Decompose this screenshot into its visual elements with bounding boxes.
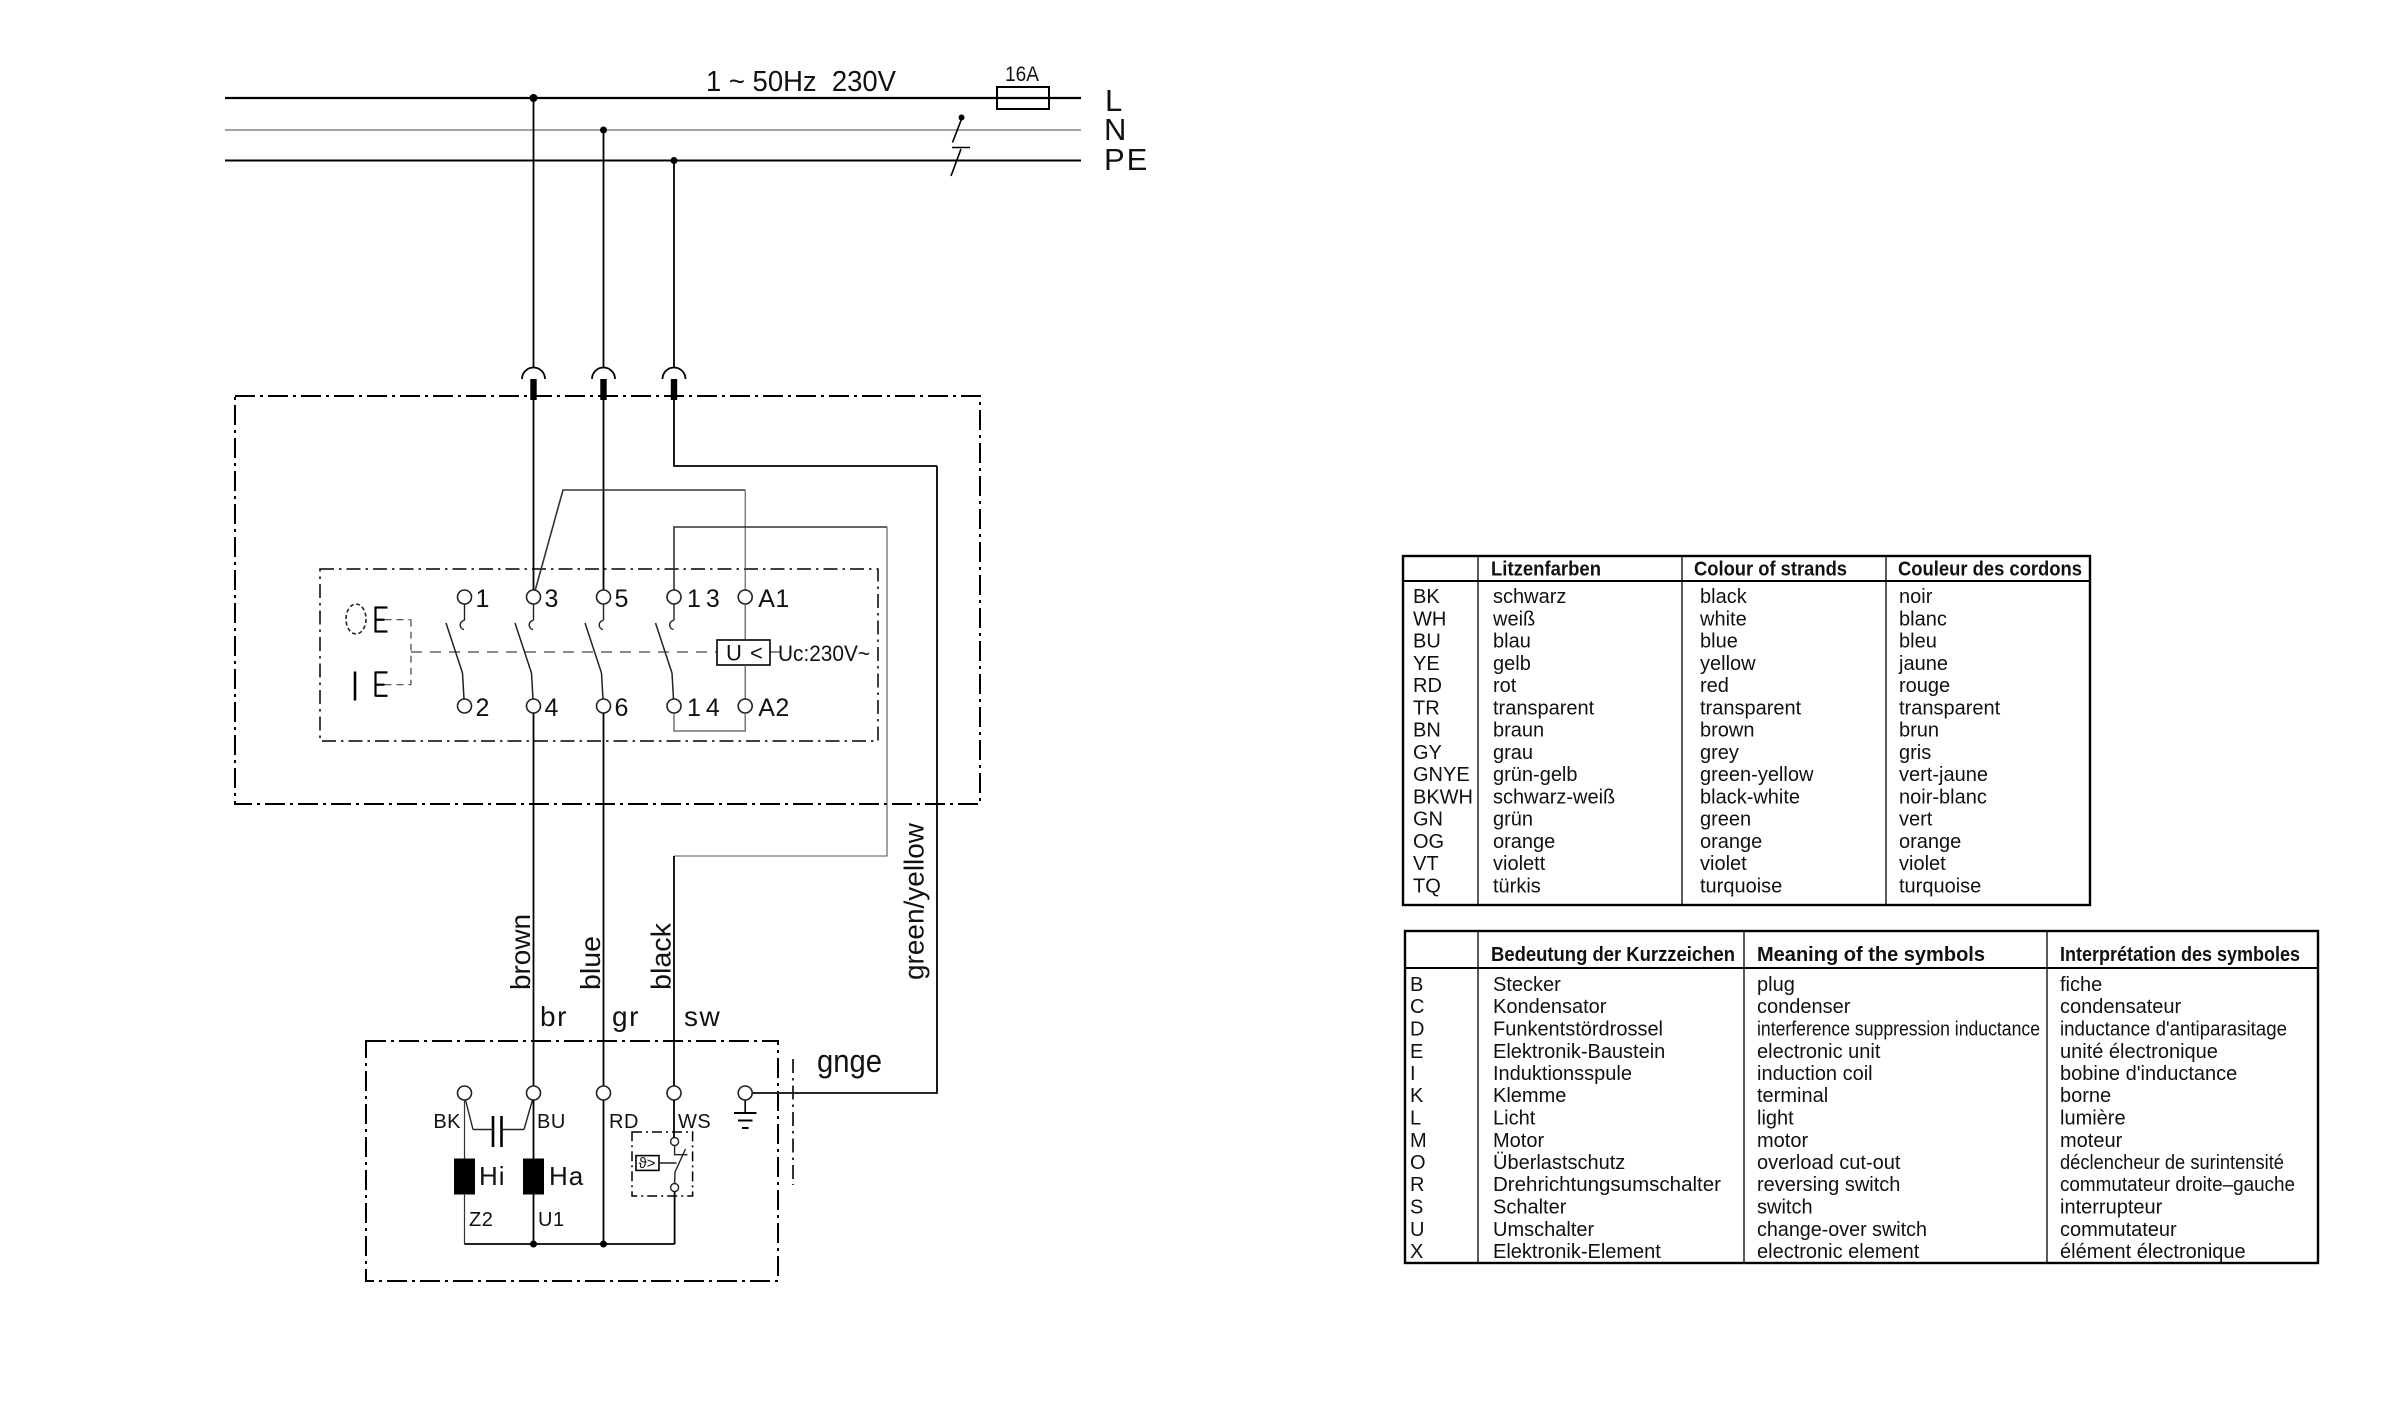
svg-text:green: green: [1700, 809, 1751, 831]
svg-text:gris: gris: [1899, 742, 1931, 764]
value label 16A: [1005, 63, 1039, 86]
svg-text:déclencheur de surintensité: déclencheur de surintensité: [2060, 1152, 2284, 1174]
wire coil Hi to bus: [464, 1194, 466, 1244]
svg-text:lumière: lumière: [2060, 1108, 2126, 1130]
svg-text:violet: violet: [1899, 853, 1946, 875]
junction bus/BU: [530, 1241, 537, 1248]
svg-text:electronic unit: electronic unit: [1757, 1041, 1881, 1063]
line-break mark on N: [953, 115, 965, 143]
svg-text:schwarz-weiß: schwarz-weiß: [1493, 786, 1615, 808]
svg-text:black: black: [1700, 586, 1748, 608]
svg-text:GY: GY: [1413, 742, 1442, 764]
enclosure: plug-in switch unit (dash-dot box): [235, 396, 980, 804]
svg-text:Überlastschutz: Überlastschutz: [1493, 1152, 1625, 1174]
pushbutton O (off): [346, 604, 388, 634]
svg-text:plug: plug: [1757, 974, 1795, 996]
svg-text:PE: PE: [1104, 142, 1149, 177]
enclosure segment (dash-dot) right of motor box: [792, 1059, 794, 1185]
svg-text:moteur: moteur: [2060, 1130, 2123, 1152]
overload contact bottom terminal: [671, 1184, 679, 1192]
svg-text:Meaning of the symbols: Meaning of the symbols: [1757, 944, 1985, 966]
svg-text:orange: orange: [1899, 831, 1961, 853]
svg-text:sw: sw: [684, 1001, 721, 1032]
pin 13: [687, 585, 725, 613]
svg-text:élément électronique: élément électronique: [2060, 1241, 2246, 1263]
svg-text:orange: orange: [1493, 831, 1555, 853]
svg-text:Colour of strands: Colour of strands: [1694, 559, 1847, 581]
svg-text:blau: blau: [1493, 631, 1531, 653]
svg-text:Hi: Hi: [479, 1161, 506, 1191]
svg-text:Z2: Z2: [469, 1209, 493, 1231]
label WS: [678, 1111, 711, 1133]
svg-text:terminal: terminal: [1757, 1085, 1828, 1107]
wire: plug N to contact 5: [603, 400, 605, 590]
svg-text:Elektronik-Baustein: Elektronik-Baustein: [1493, 1041, 1665, 1063]
overload contact top terminal: [671, 1138, 679, 1146]
svg-text:GN: GN: [1413, 809, 1443, 831]
contact pole 1-2: [446, 590, 472, 713]
node label PE: [1104, 142, 1149, 177]
label Hi: [479, 1161, 506, 1191]
svg-text:O: O: [1410, 1152, 1426, 1174]
node label N: [1104, 112, 1128, 147]
junction bus/RD: [600, 1241, 607, 1248]
svg-text:BU: BU: [1413, 631, 1441, 653]
pin 4: [545, 694, 559, 722]
label BU: [537, 1111, 566, 1133]
svg-text:Litzenfarben: Litzenfarben: [1491, 559, 1601, 581]
wire U< coil to A2: [744, 665, 746, 699]
svg-text:green-yellow: green-yellow: [1700, 764, 1814, 786]
pin 14: [687, 694, 725, 722]
svg-text:WH: WH: [1413, 608, 1446, 630]
overload cut-out O1 (dash-dot box): [632, 1132, 693, 1196]
svg-text:BN: BN: [1413, 720, 1441, 742]
svg-text:Induktionsspule: Induktionsspule: [1493, 1063, 1632, 1085]
svg-text:interrupteur: interrupteur: [2060, 1197, 2163, 1219]
net label gr: [612, 1001, 640, 1032]
svg-text:4: 4: [545, 694, 559, 722]
svg-text:Kondensator: Kondensator: [1493, 996, 1607, 1018]
pin A1: [758, 585, 790, 613]
terminal PE (earth): [738, 1086, 752, 1100]
svg-text:violett: violett: [1493, 853, 1546, 875]
junction on N: [600, 127, 607, 134]
pin Z2: [469, 1209, 493, 1231]
svg-text:red: red: [1700, 675, 1729, 697]
svg-text:switch: switch: [1757, 1197, 1813, 1219]
svg-text:D: D: [1410, 1019, 1424, 1041]
svg-text:VT: VT: [1413, 853, 1439, 875]
svg-text:C: C: [1410, 996, 1424, 1018]
svg-text:motor: motor: [1757, 1130, 1808, 1152]
svg-text:noir-blanc: noir-blanc: [1899, 786, 1987, 808]
svg-text:grey: grey: [1700, 742, 1739, 764]
svg-text:Licht: Licht: [1493, 1108, 1536, 1130]
svg-text:schwarz: schwarz: [1493, 586, 1566, 608]
value label Uc:230V~: [778, 641, 870, 666]
svg-text:overload cut-out: overload cut-out: [1757, 1152, 1901, 1174]
wire: L drop (brown feed): [533, 98, 535, 368]
plug B2: [592, 368, 615, 400]
svg-text:turquoise: turquoise: [1899, 875, 1981, 897]
wire RD terminal to bus: [603, 1100, 605, 1244]
svg-text:white: white: [1699, 608, 1747, 630]
coil Ha: [524, 1159, 544, 1194]
svg-text:GNYE: GNYE: [1413, 764, 1470, 786]
svg-text:U <: U <: [726, 641, 764, 666]
svg-text:electronic element: electronic element: [1757, 1241, 1920, 1263]
svg-text:türkis: türkis: [1493, 875, 1541, 897]
svg-text:Schalter: Schalter: [1493, 1197, 1567, 1219]
svg-text:ϑ>: ϑ>: [639, 1155, 656, 1172]
svg-text:inductance d'antiparasitage: inductance d'antiparasitage: [2060, 1019, 2287, 1041]
svg-text:14: 14: [687, 694, 725, 722]
svg-text:Drehrichtungsumschalter: Drehrichtungsumschalter: [1493, 1174, 1721, 1196]
pushbutton I (on): [355, 672, 388, 701]
svg-text:Ha: Ha: [549, 1161, 584, 1191]
wire blue (contact 6 to motor RD side): [603, 713, 605, 1086]
enclosure: switch block S (dash-dot box): [320, 569, 878, 741]
svg-text:transparent: transparent: [1899, 697, 2001, 719]
wire bus (motor common): [465, 1243, 675, 1245]
svg-text:change-over switch: change-over switch: [1757, 1219, 1927, 1241]
wire PE (earth rail): [225, 160, 1081, 162]
svg-text:B: B: [1410, 974, 1423, 996]
terminal BK: [458, 1086, 472, 1100]
contact pole 5-6: [585, 590, 611, 713]
pin 6: [615, 694, 629, 722]
svg-text:I: I: [1410, 1063, 1416, 1085]
svg-text:brown: brown: [505, 914, 536, 990]
svg-text:noir: noir: [1899, 586, 1933, 608]
svg-text:Funkentstördrossel: Funkentstördrossel: [1493, 1019, 1663, 1041]
wire A1 to U< coil: [744, 604, 746, 640]
svg-text:U1: U1: [538, 1209, 565, 1231]
svg-text:bleu: bleu: [1899, 631, 1937, 653]
svg-text:X: X: [1410, 1241, 1423, 1263]
svg-text:3: 3: [545, 585, 559, 613]
net label blue: [575, 936, 606, 990]
table: wire colour legend: [1403, 556, 2090, 905]
plug B3: [663, 368, 686, 400]
svg-text:black-white: black-white: [1700, 786, 1800, 808]
overload fixed contact elbow: [675, 1146, 688, 1155]
terminal RD: [597, 1086, 611, 1100]
coil terminal A1: [738, 590, 752, 604]
wire: black drop to motor: [673, 856, 675, 1086]
svg-text:transparent: transparent: [1493, 697, 1595, 719]
svg-text:interference suppression induc: interference suppression inductance: [1757, 1019, 2040, 1041]
svg-text:grau: grau: [1493, 742, 1533, 764]
svg-text:6: 6: [615, 694, 629, 722]
svg-text:commutateur: commutateur: [2060, 1219, 2177, 1241]
svg-text:violet: violet: [1700, 853, 1747, 875]
wire: plug L to contact 3: [533, 400, 535, 590]
enclosure: motor unit M (dash-dot box): [366, 1041, 778, 1281]
net label gnge: [817, 1043, 882, 1079]
wire: N drop (blue feed): [603, 130, 605, 368]
pin 5: [615, 585, 629, 613]
svg-text:K: K: [1410, 1085, 1424, 1107]
svg-text:reversing switch: reversing switch: [1757, 1174, 1900, 1196]
svg-text:fiche: fiche: [2060, 974, 2102, 996]
svg-text:braun: braun: [1493, 720, 1544, 742]
svg-text:RD: RD: [609, 1111, 639, 1133]
wire: PE drop (green/yellow feed): [673, 161, 675, 369]
mechanical linkage (dashed): [385, 620, 792, 685]
svg-text:green/yellow: green/yellow: [899, 822, 930, 980]
svg-text:WS: WS: [678, 1111, 711, 1133]
svg-text:weiß: weiß: [1492, 608, 1535, 630]
svg-text:gelb: gelb: [1493, 653, 1531, 675]
svg-text:M: M: [1410, 1130, 1427, 1152]
svg-text:Umschalter: Umschalter: [1493, 1219, 1594, 1241]
svg-text:bobine d'inductance: bobine d'inductance: [2060, 1063, 2237, 1085]
svg-text:Motor: Motor: [1493, 1130, 1544, 1152]
svg-text:brun: brun: [1899, 720, 1939, 742]
svg-text:condensateur: condensateur: [2060, 996, 2182, 1018]
svg-text:16A: 16A: [1005, 63, 1039, 86]
label RD: [609, 1111, 639, 1133]
svg-text:S: S: [1410, 1197, 1423, 1219]
svg-text:transparent: transparent: [1700, 697, 1802, 719]
wire BK terminal to coil Hi: [464, 1100, 466, 1159]
wire overload to bus: [674, 1192, 676, 1245]
svg-text:Couleur des cordons: Couleur des cordons: [1898, 559, 2082, 581]
pin 2: [476, 694, 490, 722]
svg-text:vert-jaune: vert-jaune: [1899, 764, 1988, 786]
svg-text:YE: YE: [1413, 653, 1440, 675]
svg-text:black: black: [646, 922, 677, 990]
svg-text:1 ~ 50Hz 230V: 1 ~ 50Hz 230V: [706, 66, 897, 98]
svg-text:turquoise: turquoise: [1700, 875, 1782, 897]
plug B1: [522, 368, 545, 400]
node label L: [1105, 83, 1124, 118]
svg-text:TR: TR: [1413, 697, 1440, 719]
svg-text:condenser: condenser: [1757, 996, 1851, 1018]
svg-text:5: 5: [615, 585, 629, 613]
svg-text:orange: orange: [1700, 831, 1762, 853]
pin A2: [758, 694, 790, 722]
thermal element (theta&gt;): [636, 1155, 677, 1172]
wire N (neutral rail): [225, 129, 1081, 131]
line-break mark on PE: [951, 148, 970, 177]
svg-text:brown: brown: [1700, 720, 1754, 742]
svg-text:rouge: rouge: [1899, 675, 1950, 697]
undervoltage release coil U&lt;: [717, 640, 770, 666]
capacitor C1: [466, 1100, 533, 1147]
coil Hi: [455, 1159, 475, 1194]
wire L (phase rail): [225, 97, 1081, 99]
svg-text:blue: blue: [575, 936, 606, 990]
wire gnge (earth terminal to green/yellow): [752, 1092, 937, 1094]
svg-text:grün-gelb: grün-gelb: [1493, 764, 1578, 786]
svg-text:E: E: [1410, 1041, 1423, 1063]
svg-text:L: L: [1410, 1108, 1421, 1130]
pin 3: [545, 585, 559, 613]
svg-text:BK: BK: [1413, 586, 1440, 608]
svg-text:BK: BK: [433, 1111, 461, 1133]
wire: contact 3 tap to coil A1: [535, 490, 745, 591]
label Ha: [549, 1161, 584, 1191]
fuse F1: [997, 87, 1049, 109]
svg-text:blanc: blanc: [1899, 608, 1947, 630]
junction on L: [530, 94, 538, 102]
svg-text:BKWH: BKWH: [1413, 786, 1473, 808]
wire: contact 13 to motor switch (loop): [674, 527, 887, 856]
svg-text:induction coil: induction coil: [1757, 1063, 1873, 1085]
terminal WS: [667, 1086, 681, 1100]
table: symbol meaning legend: [1405, 931, 2318, 1263]
coil terminal A2: [738, 699, 752, 713]
wire: plug PE elbow to green/yellow: [674, 400, 937, 466]
svg-text:gr: gr: [612, 1001, 640, 1032]
svg-text:br: br: [540, 1001, 568, 1032]
ground (earth) symbol: [734, 1100, 757, 1128]
svg-text:OG: OG: [1413, 831, 1444, 853]
svg-text:borne: borne: [2060, 1085, 2111, 1107]
wire coil Ha to bus: [533, 1194, 535, 1244]
svg-text:13: 13: [687, 585, 725, 613]
net label black: [646, 922, 677, 990]
svg-text:light: light: [1757, 1108, 1794, 1130]
svg-text:R: R: [1410, 1174, 1424, 1196]
svg-text:Stecker: Stecker: [1493, 974, 1561, 996]
svg-text:commutateur droite–gauche: commutateur droite–gauche: [2060, 1174, 2295, 1196]
net label brown: [505, 914, 536, 990]
svg-text:1: 1: [476, 585, 490, 613]
svg-text:U: U: [1410, 1219, 1424, 1241]
svg-text:2: 2: [476, 694, 490, 722]
svg-text:Bedeutung der Kurzzeichen: Bedeutung der Kurzzeichen: [1491, 944, 1735, 966]
svg-text:Elektronik-Element: Elektronik-Element: [1493, 1241, 1661, 1263]
label BK: [433, 1111, 461, 1133]
svg-text:gnge: gnge: [817, 1043, 882, 1079]
svg-text:Uc:230V~: Uc:230V~: [778, 641, 870, 666]
junction on PE: [671, 157, 678, 164]
label 1 ~ 50Hz 230V: [706, 66, 897, 98]
svg-text:jaune: jaune: [1898, 653, 1948, 675]
svg-text:vert: vert: [1899, 809, 1933, 831]
overload contact blade: [675, 1149, 686, 1184]
wire brown (contact 4 to motor BU side): [533, 713, 535, 1086]
contact pole 3-4: [515, 590, 541, 713]
net label sw: [684, 1001, 721, 1032]
wire green/yellow (PE to motor earth): [752, 466, 937, 1093]
net label green/yellow: [899, 822, 930, 980]
pin 1: [476, 585, 490, 613]
wire: contact 14 to A2: [674, 713, 745, 731]
svg-text:Klemme: Klemme: [1493, 1085, 1566, 1107]
svg-text:A2: A2: [758, 694, 790, 722]
contact pole 13-14: [656, 590, 682, 713]
wire WS terminal to overload: [673, 1100, 675, 1138]
wire BU terminal to coil Ha: [533, 1100, 535, 1159]
svg-text:yellow: yellow: [1700, 653, 1756, 675]
pin U1: [538, 1209, 565, 1231]
svg-text:RD: RD: [1413, 675, 1442, 697]
terminal BU: [527, 1086, 541, 1100]
svg-text:unité électronique: unité électronique: [2060, 1041, 2218, 1063]
net label br: [540, 1001, 568, 1032]
svg-text:BU: BU: [537, 1111, 566, 1133]
svg-text:Interprétation des symboles: Interprétation des symboles: [2060, 944, 2300, 966]
svg-text:rot: rot: [1493, 675, 1517, 697]
svg-text:TQ: TQ: [1413, 875, 1441, 897]
svg-text:A1: A1: [758, 585, 790, 613]
svg-text:grün: grün: [1493, 809, 1533, 831]
svg-text:blue: blue: [1700, 631, 1738, 653]
